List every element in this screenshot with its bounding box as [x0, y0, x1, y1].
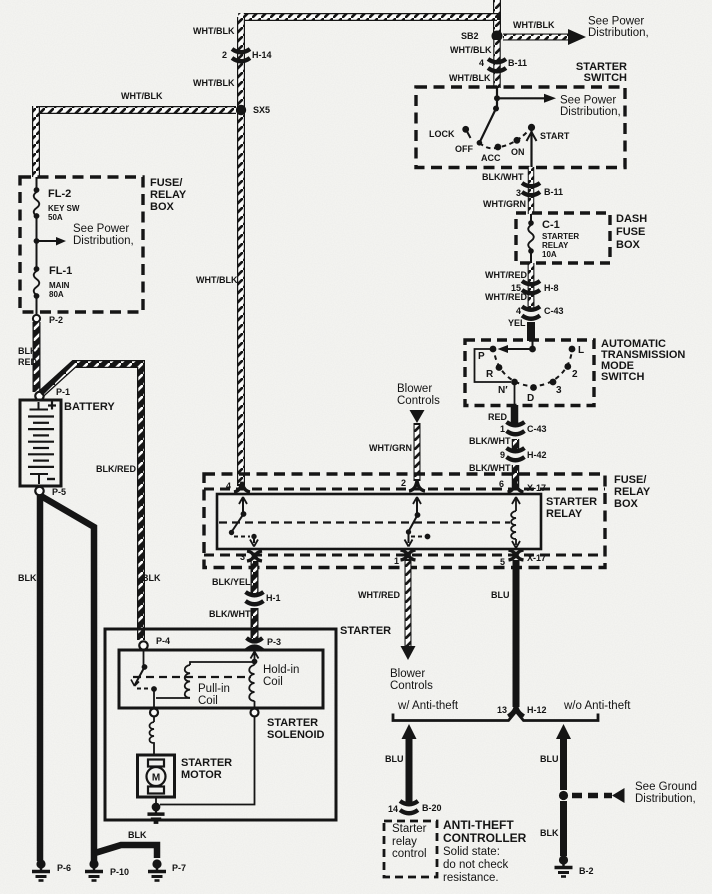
svg-text:9: 9	[500, 450, 505, 460]
svg-text:YEL: YEL	[508, 318, 526, 328]
svg-text:P-2: P-2	[49, 315, 63, 325]
svg-text:BLK: BLK	[18, 573, 37, 583]
starter switch dashed box	[416, 87, 625, 168]
armature coil to starter motor	[153, 717, 155, 756]
svg-text:10A: 10A	[542, 250, 557, 259]
svg-text:BLK/: BLK/	[18, 346, 39, 356]
wire branch to See Power arrow	[497, 97, 544, 99]
svg-text:Starter: Starter	[392, 823, 427, 835]
svg-text:1: 1	[500, 424, 505, 434]
svg-text:SWITCH: SWITCH	[584, 72, 627, 84]
wire hold-in return to ground	[160, 717, 255, 805]
svg-text:MAIN: MAIN	[49, 281, 70, 290]
starter box	[105, 629, 336, 820]
contact ON	[514, 137, 521, 144]
connector P-3 bowtie	[247, 638, 263, 650]
svg-text:STARTER: STARTER	[181, 757, 232, 769]
svg-text:relay: relay	[392, 836, 417, 848]
svg-text:control: control	[392, 848, 427, 860]
svg-text:RED: RED	[18, 357, 38, 367]
svg-text:P-4: P-4	[156, 636, 170, 646]
node P-1 terminal	[35, 392, 43, 400]
svg-text:See Power: See Power	[560, 95, 616, 107]
hold-in coil	[254, 662, 256, 710]
svg-text:M: M	[152, 773, 160, 784]
dashed detent arc OFF-ACC-ON-START	[479, 131, 528, 148]
connector C-43 (1)	[507, 422, 525, 434]
wire dashed to See Ground Distribution	[572, 793, 612, 799]
node junction dot upper	[494, 95, 500, 101]
fuse C-1 element	[530, 214, 532, 263]
svg-text:H-1: H-1	[266, 593, 281, 603]
node + arrow See Power Distribution (fuse box)	[34, 238, 40, 244]
svg-text:WHT/RED: WHT/RED	[358, 590, 400, 600]
fuse/relay box (top left) dashed border	[20, 177, 143, 312]
svg-text:Pull-in: Pull-in	[198, 683, 230, 695]
svg-text:P-3: P-3	[267, 637, 281, 647]
svg-text:STARTER: STARTER	[542, 232, 579, 241]
relay mid dashed line	[219, 521, 510, 523]
svg-text:RELAY: RELAY	[546, 508, 583, 520]
arrow down from blower controls	[410, 410, 425, 423]
node solenoid output terminal (left)	[150, 709, 158, 717]
svg-text:FUSE: FUSE	[616, 226, 645, 238]
svg-text:50A: 50A	[48, 213, 63, 222]
svg-text:SB2: SB2	[461, 31, 479, 41]
svg-text:resistance.: resistance.	[443, 872, 499, 884]
svg-text:P-5: P-5	[52, 487, 66, 497]
arrow up (right branch)	[556, 724, 571, 739]
node P-5 terminal	[35, 487, 43, 495]
connector H-1	[246, 592, 264, 604]
node P-4 terminal	[139, 641, 147, 649]
wire BLU to anti-theft controller	[406, 738, 413, 802]
fuse/relay box dashed border	[204, 474, 605, 568]
ATM switch dashed box	[465, 340, 594, 406]
svg-text:WHT/GRN: WHT/GRN	[369, 443, 412, 453]
relay switch 1 (pins 4-3)	[229, 497, 258, 547]
wire START down with up-arrow	[530, 130, 532, 167]
node solenoid output terminal (right)	[251, 709, 259, 717]
arrow to contact P	[504, 348, 533, 350]
ground P-6	[32, 859, 50, 880]
svg-text:WHT/BLK: WHT/BLK	[196, 275, 238, 285]
svg-text:FL-2: FL-2	[48, 188, 71, 200]
svg-text:P-1: P-1	[56, 387, 70, 397]
svg-text:DASH: DASH	[616, 213, 647, 225]
switch blade to OFF	[479, 109, 496, 143]
wire BLK/YEL relay pin 3 down	[251, 561, 259, 593]
svg-text:ANTI-THEFT: ANTI-THEFT	[443, 818, 514, 832]
connector B-20	[400, 801, 418, 813]
svg-text:BLU: BLU	[385, 754, 404, 764]
svg-text:C-43: C-43	[527, 424, 547, 434]
contact START	[528, 124, 535, 131]
svg-text:OFF: OFF	[455, 144, 473, 154]
svg-text:BLK: BLK	[540, 828, 559, 838]
wire BLK/WHT / WHT/GRN from switch to dash fuse box	[528, 167, 535, 214]
svg-text:ACC: ACC	[481, 153, 501, 163]
svg-text:2: 2	[222, 50, 227, 60]
svg-text:X-17: X-17	[527, 553, 546, 563]
wire WHT/BLK left vertical into fuse/relay box	[32, 106, 40, 177]
pin 3 connector	[247, 551, 262, 561]
svg-text:RED: RED	[488, 412, 508, 422]
svg-text:WHT/RED: WHT/RED	[485, 292, 527, 302]
svg-text:BLK/YEL: BLK/YEL	[212, 577, 251, 587]
svg-text:WHT/BLK: WHT/BLK	[193, 78, 235, 88]
motor symbol	[148, 760, 164, 767]
svg-text:Controls: Controls	[397, 395, 440, 407]
wire WHT/BLK arrow to See Power Distribution	[503, 29, 586, 45]
starter solenoid box	[119, 650, 323, 708]
connector B-11 (4)	[488, 59, 506, 71]
connector H-8	[522, 281, 540, 293]
svg-text:4: 4	[516, 306, 521, 316]
svg-text:WHT/BLK: WHT/BLK	[450, 45, 492, 55]
svg-text:WHT/BLK: WHT/BLK	[121, 91, 163, 101]
connector H-12 chevron	[508, 704, 524, 716]
wire into switch (thin)	[496, 88, 498, 109]
wire WHT/RED relay pin 1 to blower controls	[405, 559, 412, 646]
node junction dot lower	[493, 106, 499, 112]
svg-text:Distribution,: Distribution,	[73, 235, 134, 247]
svg-text:BLU: BLU	[540, 754, 559, 764]
svg-text:BOX: BOX	[614, 498, 639, 510]
pin 2 connector	[409, 481, 425, 491]
svg-text:BLK/WHT: BLK/WHT	[469, 436, 511, 446]
svg-text:WHT/GRN: WHT/GRN	[483, 199, 526, 209]
svg-text:BLU: BLU	[491, 590, 510, 600]
contact R	[496, 364, 503, 371]
svg-text:FL-1: FL-1	[49, 265, 72, 277]
pull-in coil	[156, 662, 255, 698]
P-3 entry arrow into solenoid	[251, 652, 259, 662]
svg-text:SWITCH: SWITCH	[601, 371, 644, 383]
svg-text:X-17: X-17	[527, 483, 546, 493]
node junction dot (ground distribution)	[559, 791, 568, 800]
contact 3	[550, 379, 557, 386]
starter relay inner box	[217, 494, 541, 549]
contact ACC	[495, 144, 502, 151]
wire WHT/GRN down to relay pin 2	[414, 423, 421, 481]
svg-text:P-10: P-10	[110, 867, 129, 877]
wire BLK/WHT to starter P-3	[251, 608, 259, 641]
svg-text:w/o Anti-theft: w/o Anti-theft	[563, 700, 631, 712]
connector C-43 (4)	[522, 307, 540, 319]
contact P	[490, 346, 497, 353]
svg-text:Controls: Controls	[390, 680, 433, 692]
svg-text:Blower: Blower	[390, 668, 425, 680]
svg-text:Coil: Coil	[263, 676, 283, 688]
svg-text:ON: ON	[511, 147, 525, 157]
svg-text:CONTROLLER: CONTROLLER	[443, 831, 527, 845]
pin 4 connector	[234, 482, 250, 492]
svg-text:START: START	[540, 131, 570, 141]
svg-text:5: 5	[500, 557, 505, 567]
dashed pin row line (bottom)	[204, 554, 605, 557]
svg-text:H-42: H-42	[527, 450, 547, 460]
svg-text:WHT/BLK: WHT/BLK	[193, 26, 235, 36]
contact D	[530, 384, 537, 391]
ground P-10	[85, 859, 103, 880]
wire BLU right branch	[560, 738, 567, 790]
wire WHT/RED below dash fuse box	[528, 263, 535, 306]
fusible link FL-1	[36, 241, 38, 315]
svg-text:KEY SW: KEY SW	[48, 204, 80, 213]
solenoid switch from P-4	[143, 650, 145, 667]
starter motor box	[138, 755, 175, 797]
dashed pin row line (top)	[204, 488, 605, 491]
svg-text:N′: N′	[498, 385, 508, 396]
wire N' down out of box	[514, 382, 516, 405]
svg-text:RELAY: RELAY	[542, 241, 569, 250]
node SX5 junction dot	[236, 105, 246, 115]
ground B-2	[555, 855, 573, 876]
svg-text:P-7: P-7	[172, 863, 186, 873]
wire WHT/RED short	[528, 299, 535, 311]
svg-text:Blower: Blower	[397, 383, 432, 395]
svg-text:STARTER: STARTER	[546, 496, 597, 508]
svg-text:BLK/WHT: BLK/WHT	[482, 172, 524, 182]
dash fuse box dashed border	[516, 213, 610, 263]
svg-text:RELAY: RELAY	[150, 189, 187, 201]
solenoid linkage dashed line	[133, 676, 251, 678]
svg-text:BATTERY: BATTERY	[64, 401, 115, 413]
svg-text:D: D	[527, 393, 534, 404]
pin 1 connector	[401, 550, 416, 560]
relay coil (pins 6-5)	[511, 497, 520, 548]
svg-text:C-43: C-43	[544, 306, 564, 316]
svg-text:Coil: Coil	[198, 695, 218, 707]
wire WHT/BLK long vertical x=241 from top run to relay pin 4	[237, 13, 245, 486]
svg-text:2: 2	[401, 478, 406, 488]
svg-text:4: 4	[479, 58, 484, 68]
svg-text:3: 3	[556, 385, 562, 396]
svg-text:Hold-in: Hold-in	[263, 664, 299, 676]
svg-text:BLK/RED: BLK/RED	[96, 464, 136, 474]
svg-text:BLK: BLK	[142, 573, 161, 583]
svg-text:Solid state:: Solid state:	[443, 846, 500, 858]
svg-text:Distribution,: Distribution,	[588, 27, 649, 39]
svg-text:BOX: BOX	[150, 201, 175, 213]
svg-text:13: 13	[497, 705, 507, 715]
contact N'	[511, 379, 518, 386]
wire BLK/WHT	[512, 439, 520, 450]
svg-text:do not check: do not check	[443, 859, 508, 871]
node junction dot (YEL feed)	[529, 346, 536, 353]
wire BLK branch to P-7	[95, 845, 157, 858]
svg-text:1: 1	[394, 556, 399, 566]
svg-text:WHT/BLK: WHT/BLK	[449, 73, 491, 83]
wire BLK branch to P-10	[41, 496, 94, 861]
bracket	[393, 712, 598, 721]
svg-text:STARTER: STARTER	[340, 625, 391, 637]
svg-text:FUSE/: FUSE/	[614, 474, 646, 486]
svg-text:B-11: B-11	[508, 58, 527, 68]
svg-text:BLK/WHT: BLK/WHT	[209, 609, 251, 619]
contact L	[569, 346, 576, 353]
svg-text:LOCK: LOCK	[429, 129, 455, 139]
anti-theft controller dashed box	[384, 821, 437, 877]
wire motor to ground	[155, 797, 157, 806]
svg-text:BLK: BLK	[128, 830, 147, 840]
wire BLU relay pin 5 down	[513, 560, 520, 707]
wire WHT/BLK horizontal top run	[241, 13, 497, 20]
dashed selector arc	[494, 347, 572, 386]
svg-text:Distribution,: Distribution,	[635, 793, 696, 805]
svg-text:Distribution,: Distribution,	[560, 106, 621, 118]
svg-text:3: 3	[516, 188, 521, 198]
wire BLK to ground B-2	[560, 801, 567, 856]
ground (starter motor)	[147, 803, 164, 823]
svg-text:80A: 80A	[49, 290, 64, 299]
wire BLK/WHT to relay pin 6	[512, 465, 520, 487]
svg-text:See Power: See Power	[73, 223, 129, 235]
svg-text:6: 6	[499, 479, 504, 489]
svg-text:B-20: B-20	[422, 803, 442, 813]
svg-text:WHT/RED: WHT/RED	[485, 270, 527, 280]
contact 2	[564, 363, 571, 370]
svg-text:3: 3	[240, 552, 245, 562]
connector H-42	[507, 448, 525, 460]
wire WHT/BLK horizontal to SX5	[36, 106, 236, 114]
svg-text:H-14: H-14	[252, 50, 272, 60]
battery box	[20, 400, 61, 486]
svg-text:SOLENOID: SOLENOID	[267, 729, 325, 741]
pin 5 connector	[509, 550, 524, 560]
fusible link FL-2	[36, 177, 38, 241]
ground P-7	[148, 859, 166, 880]
contact LOCK	[462, 126, 469, 133]
svg-text:14: 14	[388, 804, 398, 814]
svg-text:B-2: B-2	[579, 866, 594, 876]
node P-2 terminal	[33, 315, 40, 322]
wire WHT/BLK SB2 down to starter switch	[493, 40, 501, 88]
svg-text:H-8: H-8	[544, 283, 559, 293]
battery + terminal	[30, 402, 49, 410]
svg-text:R: R	[486, 369, 494, 380]
pin 6 connector	[508, 482, 524, 492]
svg-text:P-6: P-6	[57, 863, 71, 873]
connector B-11 (3)	[522, 183, 540, 195]
svg-text:See Power: See Power	[588, 16, 644, 28]
svg-text:WHT/BLK: WHT/BLK	[513, 20, 555, 30]
svg-text:See Ground: See Ground	[635, 781, 697, 793]
wire RED solid	[511, 405, 519, 424]
svg-text:2: 2	[572, 369, 578, 380]
wire BLK battery negative down to ground P-6	[37, 495, 44, 861]
wire switch contact down to solenoid bottom	[153, 689, 155, 709]
battery - terminal	[30, 474, 48, 484]
svg-text:BLK/WHT: BLK/WHT	[469, 463, 511, 473]
relay switch 2 (pins 2-1)	[405, 497, 431, 547]
connector H-14	[232, 49, 250, 61]
svg-text:FUSE/: FUSE/	[150, 177, 182, 189]
svg-text:B-11: B-11	[544, 187, 563, 197]
svg-text:P: P	[478, 351, 485, 362]
svg-text:L: L	[578, 345, 584, 356]
wire YEL solid into ATM box	[527, 322, 535, 341]
svg-text:BOX: BOX	[616, 239, 641, 251]
arrow down to blower controls	[401, 646, 416, 660]
wire WHT/BLK vertical top-right into SB2	[493, 0, 501, 33]
arrow up (left branch)	[402, 724, 417, 739]
svg-text:H-12: H-12	[527, 705, 547, 715]
battery plates	[28, 415, 54, 417]
svg-text:MOTOR: MOTOR	[181, 769, 222, 781]
svg-text:4: 4	[226, 481, 231, 491]
svg-text:STARTER: STARTER	[267, 717, 318, 729]
svg-text:C-1: C-1	[542, 219, 560, 231]
node dot below P-3	[252, 659, 258, 665]
wire BLK/RED P-2 to P-1	[33, 322, 41, 392]
svg-text:SX5: SX5	[253, 105, 270, 115]
wire P to N' (L route)	[475, 349, 512, 382]
node SB2 junction dot	[492, 31, 503, 42]
svg-text:RELAY: RELAY	[614, 486, 651, 498]
svg-text:w/ Anti-theft: w/ Anti-theft	[397, 700, 459, 712]
wire BLK/RED P-1 over to starter P-4	[41, 364, 141, 640]
